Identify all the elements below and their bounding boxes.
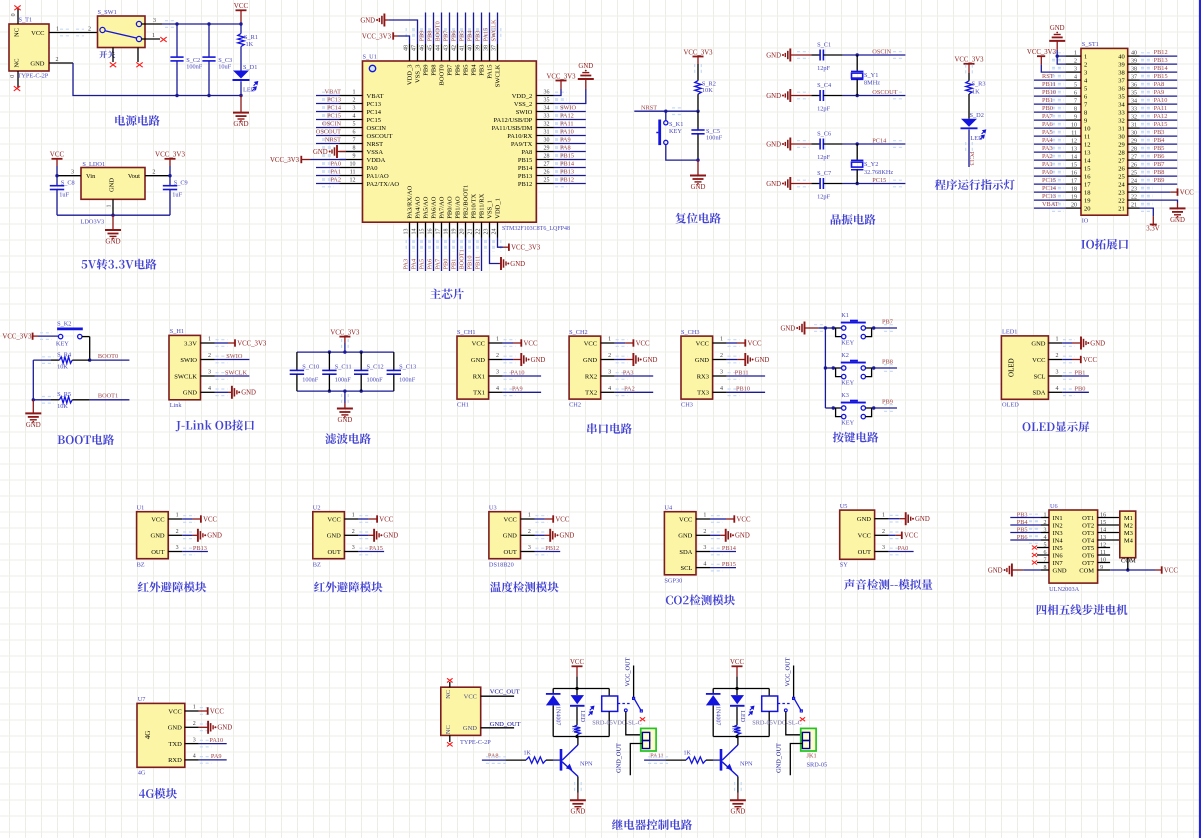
U1 pin 47 VSS_3 — [417, 44, 419, 61]
wire net PA3 — [1034, 151, 1065, 153]
U7 pin 4 RXD — [185, 759, 199, 761]
svg-text:VCC: VCC — [904, 533, 918, 540]
ground — [358, 534, 368, 536]
capacitor S_C11 100nF — [328, 352, 330, 370]
wire net PA12 — [554, 119, 586, 121]
U1 pin 37 SWCLK — [497, 44, 499, 61]
svg-text:S_Y1: S_Y1 — [864, 72, 878, 79]
wire net PA15 — [358, 551, 384, 553]
svg-text:2: 2 — [720, 353, 723, 359]
svg-text:2: 2 — [176, 529, 179, 535]
switch S_SW1 — [98, 16, 146, 48]
svg-text:PB12: PB12 — [1154, 49, 1168, 56]
svg-text:PB14: PB14 — [560, 160, 575, 167]
U5 pin 2 VCC — [875, 534, 889, 536]
switch pin1 unconnected — [142, 38, 160, 40]
svg-text:PB3: PB3 — [1154, 129, 1165, 136]
wire net PB9 — [1140, 183, 1178, 185]
svg-text:5: 5 — [1074, 82, 1077, 88]
U1 pin 40 PB4 — [473, 44, 475, 61]
U4 pin 1 VCC — [696, 518, 710, 520]
svg-text:VCC: VCC — [168, 708, 181, 715]
svg-text:15: 15 — [1084, 165, 1091, 172]
svg-text:GND: GND — [503, 533, 517, 540]
svg-text:13: 13 — [1084, 149, 1091, 156]
S_T1 top stub pin 0 — [17, 9, 19, 25]
svg-text:GND: GND — [695, 357, 709, 364]
svg-text:17: 17 — [436, 229, 442, 235]
svg-text:PB10: PB10 — [1042, 89, 1056, 96]
wire net BOOT0 — [90, 359, 130, 361]
relay coil SRD-05VDC-SL-C — [768, 689, 770, 697]
wire net GND_OUT — [630, 744, 642, 776]
module U1 — [137, 512, 169, 559]
svg-text:GND: GND — [30, 60, 44, 67]
wire net VBAT — [1034, 207, 1065, 209]
svg-text:PB14: PB14 — [518, 165, 533, 172]
VCC terminal — [199, 710, 208, 712]
wire net NRST — [316, 143, 340, 145]
svg-text:PB7: PB7 — [882, 319, 893, 326]
LED1 pin 4 SDA — [1048, 391, 1062, 393]
U1 pin 45 PB8 — [433, 44, 435, 61]
svg-text:PA10: PA10 — [209, 737, 223, 744]
U1 pin 17 PA7/AO — [441, 222, 443, 237]
svg-text:25: 25 — [1131, 170, 1137, 176]
svg-text:VDD_2: VDD_2 — [512, 93, 533, 100]
svg-text:VBAT: VBAT — [367, 93, 384, 100]
wire net PB1 — [457, 238, 459, 272]
svg-text:34: 34 — [1131, 98, 1137, 104]
module U7 4G — [137, 703, 185, 767]
svg-text:1K: 1K — [246, 41, 254, 48]
svg-text:GND: GND — [1053, 567, 1067, 574]
svg-text:1: 1 — [352, 513, 355, 519]
U1 pin 3 PC14 — [340, 111, 363, 113]
svg-text:PA3: PA3 — [623, 369, 634, 376]
svg-text:32: 32 — [1131, 114, 1137, 120]
svg-text:PB10/TX: PB10/TX — [471, 193, 478, 218]
svg-text:PB6: PB6 — [455, 64, 462, 76]
svg-text:NPN: NPN — [580, 761, 593, 768]
svg-text:28: 28 — [544, 154, 550, 160]
svg-text:VCC: VCC — [570, 659, 584, 666]
svg-text:PA9: PA9 — [1154, 89, 1165, 96]
svg-text:PA2: PA2 — [1042, 153, 1053, 160]
svg-text:PA8: PA8 — [521, 149, 532, 156]
svg-text:U5: U5 — [840, 503, 848, 510]
svg-text:4: 4 — [720, 386, 723, 392]
svg-text:44: 44 — [436, 45, 442, 51]
svg-text:VSSA: VSSA — [367, 149, 384, 156]
S_ST1 pin 30 — [1128, 135, 1140, 137]
wire net PC15 — [843, 183, 906, 185]
svg-text:NC: NC — [445, 725, 452, 734]
svg-text:PC14: PC14 — [872, 138, 887, 145]
title 四相五线步进电机 — [1037, 605, 1047, 615]
ground — [32, 400, 34, 413]
svg-text:3: 3 — [352, 545, 355, 551]
svg-text:22: 22 — [1131, 194, 1137, 200]
VCC terminal — [503, 342, 513, 344]
svg-text:OSCIN: OSCIN — [367, 125, 387, 132]
svg-text:11: 11 — [350, 170, 356, 176]
header S_CH1 serial — [457, 336, 489, 399]
svg-text:20: 20 — [460, 229, 466, 235]
svg-text:GND: GND — [1170, 217, 1185, 224]
wire net PB5 — [1010, 532, 1041, 534]
svg-text:PA4: PA4 — [411, 258, 418, 269]
svg-text:33: 33 — [544, 114, 550, 120]
title 电源电路 — [115, 115, 125, 125]
svg-text:1: 1 — [208, 337, 211, 343]
U5 pin 1 GND — [875, 518, 889, 520]
title IO拓展口 — [1081, 240, 1085, 249]
svg-text:15: 15 — [1071, 162, 1077, 168]
svg-text:GND: GND — [571, 809, 586, 816]
wire pin1-pin2 — [1057, 56, 1065, 64]
svg-text:PB4: PB4 — [1017, 519, 1029, 526]
svg-text:33: 33 — [1131, 106, 1137, 112]
ground at S_C1 — [789, 49, 791, 62]
U1 pin 46 PB9 — [425, 44, 427, 61]
LED1 pin 2 VCC — [1048, 359, 1062, 361]
U1 pin 21 PB10/TX — [473, 222, 475, 237]
svg-text:U3: U3 — [489, 505, 497, 512]
svg-text:COM: COM — [1079, 567, 1094, 574]
svg-text:41: 41 — [460, 45, 466, 51]
svg-text:10: 10 — [350, 162, 356, 168]
svg-text:S_K2: S_K2 — [57, 321, 71, 328]
svg-text:VCC_3V3: VCC_3V3 — [1027, 49, 1057, 56]
svg-text:NRST: NRST — [325, 136, 341, 143]
title 声音检测--模拟量 — [844, 579, 855, 590]
switch pin3 wire to VCC rail — [142, 23, 162, 25]
wire net PB7 — [449, 13, 451, 45]
wire net PB6 — [1010, 539, 1041, 541]
3.3V at pin21 — [1140, 208, 1154, 216]
wire net PB8 — [433, 13, 435, 45]
wire net PC14 — [316, 111, 340, 113]
svg-text:VCC_3V3: VCC_3V3 — [2, 334, 32, 341]
wire net PA1 — [1034, 167, 1065, 169]
svg-text:S_LDO1: S_LDO1 — [82, 161, 105, 168]
key K3 — [825, 407, 835, 409]
svg-text:M1: M1 — [1124, 515, 1133, 522]
svg-text:VCC: VCC — [234, 2, 249, 10]
ground — [199, 726, 208, 728]
svg-text:36: 36 — [1131, 82, 1137, 88]
svg-text:3: 3 — [208, 370, 211, 376]
svg-text:PA2/TX/AO: PA2/TX/AO — [367, 181, 400, 188]
svg-text:PB7: PB7 — [1154, 161, 1165, 168]
U1 pin 28 PB15 — [536, 159, 553, 161]
S_ST1 pin 36 — [1128, 87, 1140, 89]
svg-text:OSCIN: OSCIN — [322, 120, 341, 127]
node LDO3V3 bottom rail — [57, 214, 170, 216]
svg-text:S_C13: S_C13 — [399, 363, 416, 370]
svg-text:Link: Link — [170, 402, 183, 409]
svg-text:4: 4 — [608, 386, 611, 392]
wire net PB12 — [554, 183, 586, 185]
svg-text:GND: GND — [766, 93, 781, 100]
wire net SWCLK — [215, 375, 250, 377]
U1 pin 42 PB6 — [457, 44, 459, 61]
U7 pin 2 GND — [185, 726, 199, 728]
wire net PB14 — [1140, 71, 1178, 73]
svg-text:40: 40 — [1131, 50, 1137, 56]
U1 pin 30 PA9/TX — [536, 143, 553, 145]
S_CH2 pin 1 VCC — [601, 342, 615, 344]
svg-text:BOOT1: BOOT1 — [459, 249, 466, 269]
svg-text:GND: GND — [766, 141, 781, 148]
svg-text:PB7: PB7 — [443, 31, 450, 42]
capacitor S_C1 12pF — [811, 54, 820, 56]
svg-text:PB0: PB0 — [443, 259, 450, 270]
svg-text:PA15: PA15 — [483, 28, 490, 42]
svg-text:K2: K2 — [841, 352, 849, 359]
svg-text:PA12: PA12 — [1154, 113, 1168, 120]
svg-text:PB1/AO: PB1/AO — [455, 196, 462, 219]
svg-text:1: 1 — [1074, 50, 1077, 56]
svg-text:GND: GND — [183, 390, 197, 397]
wire net PA15 — [1140, 127, 1178, 129]
svg-text:25: 25 — [1118, 173, 1125, 180]
svg-text:CH3: CH3 — [681, 401, 693, 408]
svg-text:PA5: PA5 — [419, 259, 426, 270]
U1 pin 38 PA15 — [489, 44, 491, 61]
svg-text:PA5/AO: PA5/AO — [423, 196, 430, 218]
svg-text:VCC_3V3: VCC_3V3 — [511, 245, 541, 252]
connector JK (green) — [801, 728, 816, 751]
connector M1-M4 motor — [1120, 511, 1136, 558]
wire net PB15 — [710, 567, 736, 569]
U7 pin 3 TXD — [185, 743, 199, 745]
svg-text:14: 14 — [1084, 157, 1091, 164]
svg-text:VCC: VCC — [31, 30, 44, 37]
svg-text:PB13: PB13 — [193, 545, 207, 552]
svg-text:S_C8: S_C8 — [61, 180, 75, 187]
svg-text:PB14: PB14 — [722, 545, 737, 552]
wire net PA12 — [1140, 119, 1178, 121]
svg-text:PA3: PA3 — [1042, 145, 1053, 152]
emitter to ground — [577, 776, 579, 792]
svg-text:PA9: PA9 — [512, 386, 523, 393]
wire net PA8 — [554, 151, 586, 153]
svg-text:COM: COM — [1121, 557, 1136, 564]
resistor S_R1 1K — [239, 22, 242, 25]
svg-text:PB15: PB15 — [518, 157, 532, 164]
svg-text:IO: IO — [1082, 218, 1089, 225]
svg-text:S_C4: S_C4 — [817, 82, 832, 89]
S_ST1 pin 40 — [1128, 55, 1140, 57]
svg-text:SWCLK: SWCLK — [174, 373, 197, 380]
M connector common pin — [1127, 558, 1129, 570]
svg-text:10: 10 — [1071, 122, 1077, 128]
wire net PB3 — [1010, 517, 1041, 519]
svg-text:OSCOUT: OSCOUT — [316, 128, 341, 135]
capacitor S_C2 100nF — [175, 22, 178, 25]
svg-text:34: 34 — [544, 106, 550, 112]
svg-text:21: 21 — [468, 229, 474, 235]
node NRST — [696, 110, 699, 113]
svg-text:3: 3 — [882, 545, 885, 551]
svg-text:BOOT0: BOOT0 — [439, 65, 446, 86]
wire net BOOT1 — [465, 238, 467, 272]
svg-text:PB9: PB9 — [419, 31, 426, 42]
svg-text:PA12/USB/DP: PA12/USB/DP — [494, 117, 533, 124]
svg-text:38: 38 — [1118, 69, 1125, 76]
S_ST1 pin 29 — [1128, 143, 1140, 145]
wire net PB5 — [465, 13, 467, 45]
svg-text:S_CH1: S_CH1 — [457, 329, 476, 336]
svg-text:PA9: PA9 — [211, 753, 222, 760]
svg-text:PB0: PB0 — [1042, 105, 1053, 112]
svg-text:RXD: RXD — [168, 757, 182, 764]
U1 pin 31 PA10/RX — [536, 135, 553, 137]
svg-text:S_T1: S_T1 — [19, 17, 33, 24]
relay rails — [553, 688, 609, 690]
svg-text:35: 35 — [544, 98, 550, 104]
svg-text:27: 27 — [1131, 154, 1137, 160]
svg-text:32: 32 — [1118, 117, 1125, 124]
svg-text:PA1: PA1 — [1042, 161, 1053, 168]
svg-text:PB5: PB5 — [1017, 526, 1028, 533]
wire net PB3 — [481, 13, 483, 45]
svg-text:12: 12 — [1084, 141, 1091, 148]
svg-text:U2: U2 — [313, 505, 321, 512]
svg-text:PA1: PA1 — [330, 168, 341, 175]
svg-text:PA9: PA9 — [560, 136, 571, 143]
svg-text:PB10: PB10 — [467, 256, 474, 270]
U1 pin 16 PA6/AO — [433, 222, 435, 237]
title 红外避障模块 — [138, 582, 149, 592]
svg-text:GND: GND — [105, 237, 120, 245]
title BOOT电路 — [58, 435, 65, 444]
U1 pin 15 PA5/AO — [425, 222, 427, 237]
svg-text:SRD-05VDC-SL-C: SRD-05VDC-SL-C — [752, 719, 802, 726]
svg-text:PA3/RX/AO: PA3/RX/AO — [407, 185, 414, 218]
ground — [112, 215, 114, 229]
svg-text:19: 19 — [452, 229, 458, 235]
svg-text:S_R1: S_R1 — [244, 34, 258, 41]
VCC_3V3 at VDDA — [311, 159, 347, 161]
U1 pin 39 PB3 — [481, 44, 483, 61]
svg-text:10K: 10K — [702, 87, 713, 94]
svg-text:OSCIN: OSCIN — [872, 49, 891, 56]
svg-text:8: 8 — [1084, 109, 1087, 116]
svg-text:18: 18 — [444, 229, 450, 235]
svg-text:S_SW1: S_SW1 — [98, 9, 117, 16]
title 温度检测模块 — [490, 582, 501, 593]
svg-text:GND: GND — [463, 725, 477, 732]
S_ST1 pin 9 — [1065, 119, 1081, 121]
transistor NPN — [720, 749, 723, 771]
svg-text:9: 9 — [1084, 117, 1087, 124]
svg-text:PB1: PB1 — [1042, 97, 1053, 104]
svg-text:GND: GND — [766, 181, 781, 188]
svg-text:VCC: VCC — [584, 340, 597, 347]
svg-text:PB13: PB13 — [560, 168, 574, 175]
svg-text:1uF: 1uF — [59, 192, 69, 199]
svg-text:33: 33 — [1118, 109, 1125, 116]
svg-text:PA10/RX: PA10/RX — [507, 133, 532, 140]
wire net PA5 — [1034, 135, 1065, 137]
svg-text:NRST: NRST — [641, 104, 657, 111]
S_ST1 pin 18 — [1065, 191, 1081, 193]
S_ST1 pin 17 — [1065, 183, 1081, 185]
svg-text:VCC: VCC — [730, 659, 744, 666]
svg-text:PA6: PA6 — [1042, 121, 1053, 128]
ground at VSSA — [346, 151, 363, 153]
capacitor S_C6 12pF — [811, 143, 820, 145]
svg-text:6: 6 — [1074, 90, 1077, 96]
svg-text:VCC: VCC — [1180, 189, 1194, 196]
svg-text:U4: U4 — [664, 505, 673, 512]
svg-text:PC14: PC14 — [1042, 185, 1057, 192]
svg-text:VCC: VCC — [1083, 357, 1097, 364]
wire net PA7 — [1034, 119, 1065, 121]
svg-text:VDD_1: VDD_1 — [495, 198, 502, 219]
ground — [503, 359, 514, 361]
emitter to ground — [737, 776, 739, 792]
svg-text:PB15: PB15 — [1154, 73, 1168, 80]
svg-text:PA4/AO: PA4/AO — [415, 196, 422, 218]
svg-text:11: 11 — [1071, 130, 1077, 136]
svg-text:U1: U1 — [137, 505, 145, 512]
svg-text:S_C7: S_C7 — [817, 170, 831, 177]
svg-text:GND_OUT: GND_OUT — [490, 721, 521, 728]
svg-text:20: 20 — [1084, 205, 1091, 212]
svg-text:PB6: PB6 — [1017, 534, 1028, 541]
svg-text:GND: GND — [313, 149, 328, 156]
U1 pin 18 PB0/AO — [449, 222, 451, 237]
svg-text:PA8: PA8 — [560, 144, 571, 151]
header S_CH3 serial — [681, 336, 713, 399]
svg-text:S_R3: S_R3 — [972, 80, 986, 87]
wire net OSCIN — [843, 54, 906, 56]
svg-text:37: 37 — [1131, 74, 1137, 80]
svg-text:0: 0 — [10, 75, 16, 78]
VCC terminal — [710, 518, 726, 520]
U1 pin 36 VDD_2 — [536, 95, 553, 97]
wire net PB14 — [710, 551, 736, 553]
capacitor S_C9 1uF — [169, 176, 171, 186]
svg-text:NC: NC — [13, 28, 20, 37]
svg-text:35: 35 — [1131, 90, 1137, 96]
title 按键电路 — [833, 432, 844, 443]
svg-text:18: 18 — [1071, 186, 1077, 192]
svg-text:24: 24 — [1118, 181, 1125, 188]
svg-text:38: 38 — [484, 45, 490, 51]
svg-text:1: 1 — [720, 337, 723, 343]
VCC_3V3 at VDD_1 — [498, 238, 504, 248]
wire net PA3 — [615, 375, 654, 377]
switch bottom stubs — [112, 48, 114, 63]
svg-text:3.3V: 3.3V — [1146, 225, 1159, 232]
svg-text:SWIO: SWIO — [516, 109, 533, 116]
display LED1 OLED — [1001, 336, 1048, 399]
S_ST1 pin 12 — [1065, 143, 1081, 145]
svg-text:PB11: PB11 — [1042, 81, 1056, 88]
svg-text:27: 27 — [1118, 157, 1125, 164]
MCU U1 STM32F103C8T6 — [363, 61, 537, 222]
svg-text:GND: GND — [915, 516, 930, 523]
svg-text:PA3: PA3 — [403, 259, 410, 270]
svg-text:S_CH3: S_CH3 — [681, 329, 700, 336]
svg-text:KEY: KEY — [841, 379, 854, 386]
svg-text:S_Y2: S_Y2 — [864, 161, 878, 168]
